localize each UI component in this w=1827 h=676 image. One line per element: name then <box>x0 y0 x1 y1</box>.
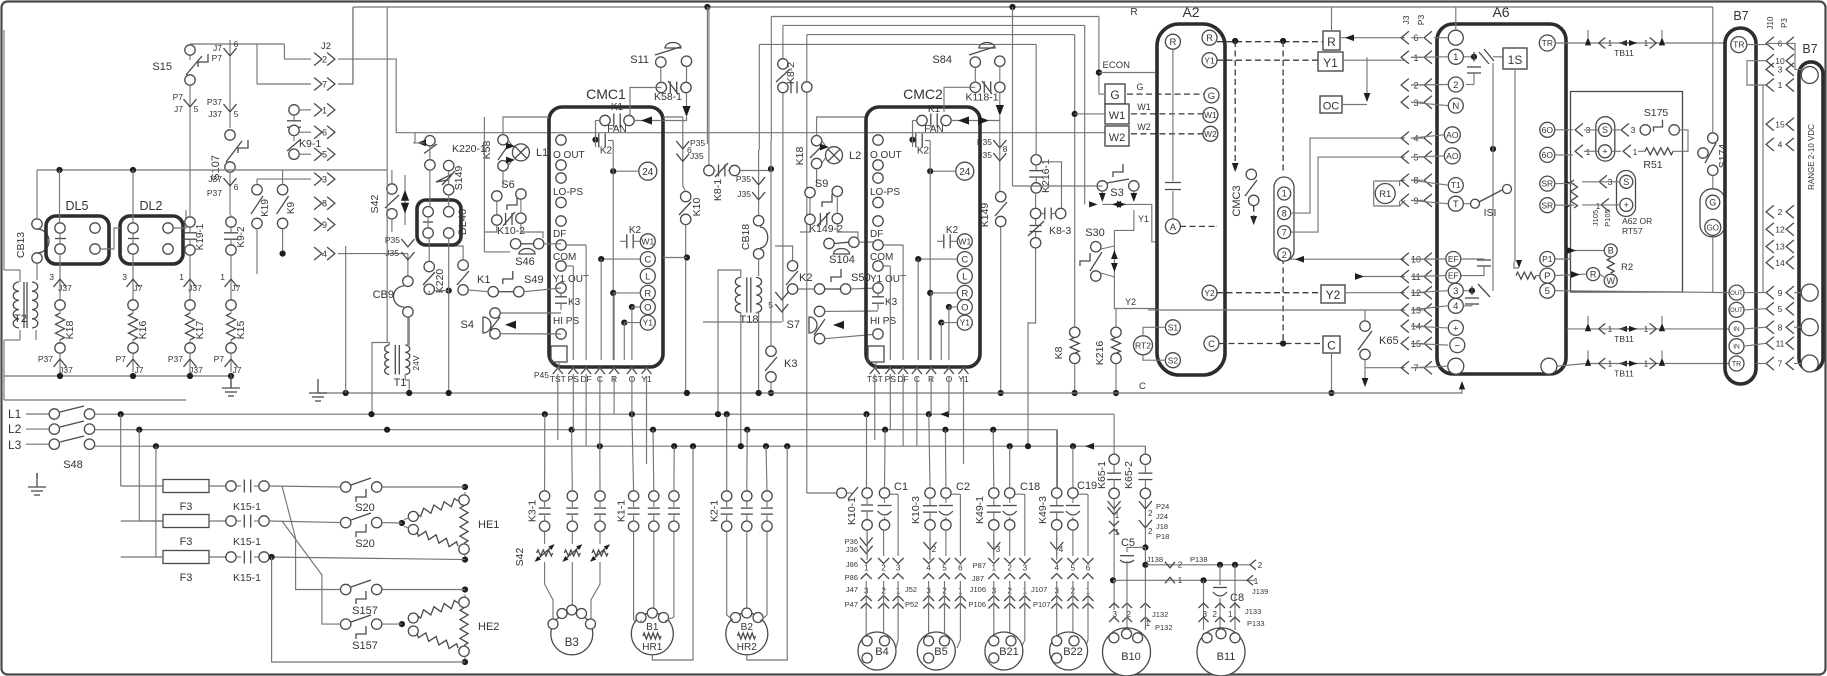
svg-text:+: + <box>1453 323 1459 334</box>
motor B11 <box>1197 628 1245 676</box>
svg-text:O OUT: O OUT <box>870 150 902 161</box>
svg-text:S1: S1 <box>1168 322 1179 332</box>
wire <box>1744 327 1766 329</box>
svg-text:J7: J7 <box>213 43 222 53</box>
svg-text:C: C <box>961 255 968 266</box>
svg-text:C: C <box>1327 339 1336 353</box>
connector chevrons <box>1575 123 1583 136</box>
contact K8-1 <box>704 165 714 175</box>
wire <box>36 263 38 280</box>
relay K65 <box>1360 321 1370 331</box>
terminal CMC1 LO-PS <box>556 173 566 183</box>
connector J3 pin 6 <box>1401 31 1409 44</box>
terminal block TB11 bottom <box>1586 363 1664 365</box>
svg-text:J7: J7 <box>232 283 241 293</box>
controller CMC1 <box>549 107 663 367</box>
wire <box>282 486 341 590</box>
wire <box>889 374 891 430</box>
pin Y1 CMC2 <box>959 368 969 374</box>
svg-text:P37: P37 <box>38 354 53 364</box>
svg-text:K65: K65 <box>1379 335 1399 347</box>
pin 24 <box>639 162 657 180</box>
wire <box>1340 37 1405 39</box>
wire <box>386 170 388 343</box>
pin PS <box>568 368 578 374</box>
wire <box>1712 176 1714 189</box>
svg-text:K3: K3 <box>885 297 898 308</box>
terminal <box>128 223 138 233</box>
connector chevron A62 <box>1599 175 1607 188</box>
svg-text:K3: K3 <box>784 358 797 370</box>
wire <box>999 66 1001 82</box>
connector J10 pin 12 <box>1766 223 1774 236</box>
connector J3 pin 15 <box>1401 337 1409 350</box>
svg-text:K16: K16 <box>137 321 149 340</box>
pin S1 <box>1165 320 1180 335</box>
wire <box>646 376 648 464</box>
svg-text:W2: W2 <box>1137 122 1151 132</box>
svg-text:P37: P37 <box>207 188 222 198</box>
device DL2 <box>120 216 183 264</box>
svg-text:5: 5 <box>1071 564 1076 573</box>
svg-text:9: 9 <box>1778 288 1783 298</box>
svg-text:W: W <box>1606 276 1615 286</box>
wire <box>951 120 1000 122</box>
controller CMC2 <box>866 107 980 367</box>
wire <box>682 117 684 132</box>
wire <box>1411 56 1423 58</box>
contact K220-1 <box>425 136 435 146</box>
svg-text:GO: GO <box>1707 223 1719 232</box>
contact K118-1 <box>970 82 980 92</box>
wire <box>1027 420 1029 446</box>
pin R <box>640 285 655 300</box>
wire <box>836 197 838 214</box>
wire <box>999 116 1001 192</box>
svg-text:DF: DF <box>870 229 883 240</box>
connector J3 pin 12 <box>1401 286 1409 299</box>
switch S157a <box>341 584 351 594</box>
svg-text:4: 4 <box>322 249 327 259</box>
connector J2 pin 9 <box>314 218 322 231</box>
wire <box>1144 547 1146 564</box>
connector J3 pin 4 <box>1401 132 1409 145</box>
pin C <box>595 368 605 374</box>
svg-text:R: R <box>1130 7 1137 18</box>
svg-text:−: − <box>1455 341 1461 352</box>
svg-text:S42: S42 <box>369 195 381 214</box>
svg-text:J37: J37 <box>188 283 202 293</box>
cap C8 <box>1219 565 1221 585</box>
contact K49-3 <box>1052 488 1062 498</box>
svg-text:K15-1: K15-1 <box>233 536 261 548</box>
wire <box>1756 363 1766 365</box>
svg-text:3: 3 <box>1453 286 1458 297</box>
svg-text:G: G <box>1208 91 1215 102</box>
connector K17 pin3 <box>189 255 191 300</box>
svg-text:24: 24 <box>959 167 971 178</box>
wire <box>816 169 818 186</box>
wire <box>352 7 354 84</box>
svg-text:R: R <box>644 288 651 299</box>
pin R right <box>1202 30 1217 45</box>
terminal block TB11 mid <box>1586 328 1664 330</box>
wire <box>1582 181 1619 183</box>
pin O CMC2 <box>944 368 954 374</box>
svg-text:3: 3 <box>49 272 54 282</box>
svg-text:C: C <box>1139 381 1146 392</box>
pin 2 A6 <box>1448 77 1463 92</box>
svg-text:K220: K220 <box>434 269 446 294</box>
pin PS CMC2 <box>885 368 895 374</box>
wire <box>1074 35 1076 328</box>
svg-text:1: 1 <box>322 105 327 115</box>
pin O <box>640 300 655 315</box>
pin W1 A2 <box>1203 108 1218 123</box>
box G <box>1105 84 1125 104</box>
pin W1 CMC2 <box>957 234 972 249</box>
connector pin5 chev <box>782 93 784 322</box>
svg-text:2: 2 <box>1258 561 1263 570</box>
wire <box>1557 364 1586 367</box>
wire <box>918 258 957 260</box>
wire <box>889 266 891 360</box>
wire <box>1411 180 1448 185</box>
pin O CMC2 <box>957 300 972 315</box>
wire <box>372 343 389 415</box>
svg-text:C2: C2 <box>956 481 970 493</box>
wire <box>747 446 787 660</box>
wire <box>544 414 546 491</box>
box Y2 <box>1321 285 1345 303</box>
wire <box>299 153 311 155</box>
pin B <box>1604 244 1617 257</box>
connector J3 pin 2 <box>1401 79 1409 92</box>
pin W1 <box>640 234 655 249</box>
pin L <box>640 269 655 284</box>
switch S49 <box>503 271 513 284</box>
contact marks DL2 <box>128 238 139 240</box>
wire <box>120 414 122 486</box>
svg-text:14: 14 <box>1775 258 1785 268</box>
connector J10 pin 7 <box>1766 357 1774 370</box>
cap 3 A6 <box>1464 290 1470 292</box>
wire <box>825 310 878 312</box>
wire <box>916 376 918 446</box>
pin R CMC2 <box>957 285 972 300</box>
wire <box>256 179 258 184</box>
svg-text:+: + <box>1602 147 1607 157</box>
cap A2 <box>1172 49 1174 181</box>
svg-text:1: 1 <box>179 272 184 282</box>
wire <box>938 320 944 326</box>
wire <box>800 225 810 232</box>
wire <box>448 195 450 207</box>
contact K8-3 <box>1030 208 1040 218</box>
svg-text:S: S <box>1602 125 1608 135</box>
svg-text:TR: TR <box>1542 38 1553 48</box>
wire <box>822 141 827 148</box>
svg-text:1: 1 <box>1115 511 1120 520</box>
wire <box>930 293 932 360</box>
wire <box>448 171 450 185</box>
dashed vert 2 <box>1282 41 1284 174</box>
wire <box>929 535 931 556</box>
wire <box>993 535 995 556</box>
svg-text:3: 3 <box>1631 125 1636 135</box>
terminal <box>423 207 433 217</box>
svg-text:5: 5 <box>1545 286 1550 297</box>
svg-text:F3: F3 <box>180 501 193 513</box>
svg-text:1: 1 <box>1644 325 1649 334</box>
cap 1S <box>1467 66 1481 68</box>
box OC <box>1320 96 1342 113</box>
connector J3 pin 11 <box>1401 270 1409 283</box>
svg-text:J35: J35 <box>690 151 704 161</box>
pin A <box>1165 219 1180 234</box>
svg-text:CMC1: CMC1 <box>586 86 626 102</box>
wire <box>1411 37 1423 39</box>
wire <box>1411 366 1447 368</box>
svg-text:T2: T2 <box>14 313 27 325</box>
svg-text:L3: L3 <box>8 438 22 452</box>
wire <box>1411 343 1423 345</box>
svg-text:K15-1: K15-1 <box>233 501 261 513</box>
svg-text:P35: P35 <box>736 174 751 184</box>
box 1S <box>1464 56 1472 58</box>
wire <box>726 531 728 615</box>
cap K3 CMC1 <box>560 293 562 297</box>
wire <box>1115 364 1117 393</box>
svg-text:S149: S149 <box>453 166 465 191</box>
svg-text:K9-2: K9-2 <box>236 226 247 248</box>
wire <box>1411 84 1448 87</box>
wire <box>386 7 388 170</box>
connector J2 pin 5 <box>314 148 322 161</box>
pin EF2 <box>1446 268 1461 283</box>
connector J10 pin 10 <box>1766 54 1774 67</box>
svg-text:8: 8 <box>1003 144 1008 154</box>
wire <box>26 413 49 415</box>
wire <box>660 67 662 82</box>
svg-text:1: 1 <box>1644 39 1649 48</box>
svg-text:K15-1: K15-1 <box>233 572 261 584</box>
terminal CMC2 O OUT <box>873 135 883 145</box>
svg-text:HI PS: HI PS <box>553 316 579 327</box>
motor B5 <box>917 632 955 670</box>
cap EF <box>1461 258 1478 260</box>
svg-text:J7: J7 <box>135 365 144 375</box>
svg-text:J52: J52 <box>905 585 917 594</box>
connector chevrons K65-1 <box>1113 499 1115 581</box>
wire <box>1364 310 1366 321</box>
svg-text:C1: C1 <box>894 481 908 493</box>
switch S107 <box>225 130 235 140</box>
wire <box>585 245 587 360</box>
svg-text:P7: P7 <box>212 53 223 63</box>
svg-text:S4: S4 <box>461 319 474 331</box>
svg-text:K19: K19 <box>260 199 271 217</box>
pin 8 right <box>1801 319 1818 336</box>
motor B10 <box>1103 628 1151 676</box>
pin top right <box>1801 67 1818 84</box>
wire <box>601 258 640 260</box>
svg-text:K2: K2 <box>600 146 613 157</box>
connector P37/J37 pin5 <box>229 64 231 128</box>
wire <box>822 157 826 164</box>
wire <box>837 224 858 238</box>
res vertical <box>1571 180 1578 208</box>
contactor K2-1 <box>722 491 732 501</box>
TST square <box>551 346 567 362</box>
wire <box>686 93 688 113</box>
svg-text:K65-1: K65-1 <box>1096 461 1108 489</box>
breaker CB13 <box>32 219 42 229</box>
wire <box>521 223 543 238</box>
svg-text:Y1: Y1 <box>1138 214 1149 224</box>
svg-text:2: 2 <box>1213 610 1218 619</box>
wire C bus <box>318 392 1135 394</box>
connector col B21 <box>988 558 999 564</box>
svg-text:ISI: ISI <box>1484 207 1497 219</box>
wire <box>299 109 311 111</box>
svg-text:J107: J107 <box>1031 585 1047 594</box>
connector chevrons K65-2 <box>1144 499 1146 548</box>
wire <box>591 562 600 620</box>
wire <box>775 246 793 261</box>
switch S20a <box>341 482 351 492</box>
wire <box>1411 309 1423 311</box>
wire <box>500 312 561 314</box>
svg-text:K19-1: K19-1 <box>195 223 206 250</box>
svg-text:R2: R2 <box>1621 262 1633 273</box>
motor B22 <box>1050 632 1088 670</box>
wire <box>1400 179 1405 182</box>
svg-text:J47: J47 <box>846 585 858 594</box>
wire <box>282 170 284 185</box>
svg-text:S20: S20 <box>355 502 375 514</box>
svg-text:4: 4 <box>1453 301 1458 312</box>
connector J2 pin 8 <box>314 197 322 210</box>
pin bottom left <box>1448 358 1464 374</box>
switch K19 <box>252 185 262 195</box>
wire <box>345 246 347 393</box>
wire <box>685 225 687 393</box>
motor B3 <box>551 613 593 655</box>
wire <box>35 330 37 340</box>
svg-text:RT2: RT2 <box>1135 340 1151 350</box>
svg-text:5: 5 <box>942 564 947 573</box>
svg-text:S: S <box>1623 177 1629 187</box>
module frame <box>1571 92 1683 293</box>
connector chevrons B5 <box>929 530 931 560</box>
svg-text:B: B <box>1608 246 1614 256</box>
connector col <box>878 558 889 564</box>
svg-text:IN: IN <box>1733 344 1740 351</box>
contact K9-2 <box>226 217 236 227</box>
wire <box>1056 430 1058 488</box>
wire <box>59 372 61 376</box>
svg-text:2: 2 <box>1282 250 1287 260</box>
connector J10 pin 11 <box>1766 337 1774 350</box>
svg-text:SR: SR <box>1541 200 1553 210</box>
wire <box>630 88 661 118</box>
svg-text:K18: K18 <box>794 147 806 166</box>
wire <box>524 288 561 292</box>
svg-text:R51: R51 <box>1643 159 1662 171</box>
wire L3 row <box>95 445 1146 447</box>
wire <box>448 246 463 260</box>
svg-text:1: 1 <box>1453 52 1458 63</box>
svg-text:2: 2 <box>1148 527 1153 536</box>
svg-text:P107: P107 <box>1033 600 1051 609</box>
wire S15 top feed <box>189 43 191 46</box>
contact K19-1 <box>185 217 195 227</box>
wire W2 long <box>338 59 1105 133</box>
pin SR-1 <box>1540 176 1555 191</box>
svg-text:OUT: OUT <box>1730 308 1743 314</box>
svg-text:J36: J36 <box>846 545 858 554</box>
pin C <box>640 252 655 267</box>
wire <box>1035 44 1037 154</box>
svg-text:B5: B5 <box>934 646 947 658</box>
wire <box>621 320 627 326</box>
svg-text:A6: A6 <box>1492 4 1509 20</box>
relay R1 <box>1375 184 1395 204</box>
ground C bus <box>317 379 319 393</box>
cap K3 CMC2 <box>877 293 879 297</box>
box R <box>1323 31 1340 50</box>
svg-text:G: G <box>1709 197 1716 207</box>
svg-text:A62 OR: A62 OR <box>1622 216 1652 226</box>
svg-text:W1: W1 <box>1137 102 1151 112</box>
connector J2 pin 6 <box>314 126 322 139</box>
wire <box>1712 7 1714 133</box>
svg-text:CB18: CB18 <box>740 224 752 250</box>
wire <box>653 531 655 608</box>
pin C A2 <box>1204 336 1219 351</box>
pin AO1 <box>1444 127 1460 143</box>
svg-text:1: 1 <box>1608 39 1613 48</box>
svg-text:1: 1 <box>1228 610 1233 619</box>
fuse F3 row3 <box>163 551 209 564</box>
wire 1S down <box>1514 69 1516 262</box>
transformer T1 <box>385 345 390 375</box>
wire <box>1411 326 1448 328</box>
svg-text:TB11: TB11 <box>1614 334 1634 344</box>
wire <box>1291 138 1405 213</box>
svg-text:R: R <box>1327 35 1336 49</box>
svg-text:S84: S84 <box>932 54 952 66</box>
wire <box>1411 102 1448 105</box>
wire <box>269 521 340 523</box>
svg-text:J105: J105 <box>1591 210 1600 226</box>
svg-text:J138: J138 <box>1147 555 1163 564</box>
svg-text:K1-1: K1-1 <box>616 500 628 522</box>
svg-text:Y1: Y1 <box>643 318 654 328</box>
wire <box>1555 251 1604 260</box>
wire J139 row <box>1113 579 1255 581</box>
wire <box>999 93 1001 113</box>
wire <box>1411 258 1445 260</box>
wire <box>1411 156 1444 157</box>
svg-text:B1: B1 <box>646 622 659 633</box>
svg-text:P37: P37 <box>168 354 183 364</box>
relay K3 mid <box>766 346 776 356</box>
svg-text:K2: K2 <box>917 146 930 157</box>
svg-text:S2: S2 <box>1168 355 1179 365</box>
svg-text:6: 6 <box>322 128 327 138</box>
